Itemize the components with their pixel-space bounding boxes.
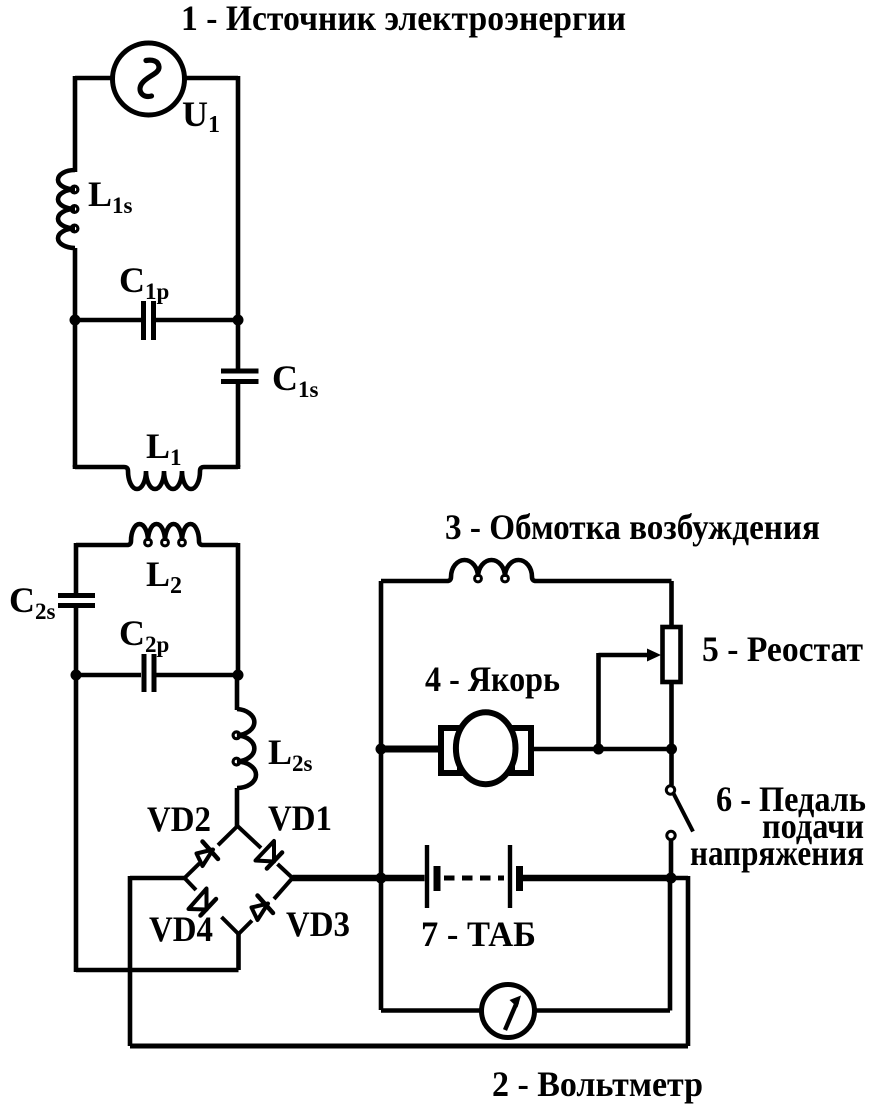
wire: circuit2 right rail top — [236, 543, 241, 675]
svg-text:2 - Вольтметр: 2 - Вольтметр — [492, 1064, 703, 1104]
wire: voltmeter left lead — [381, 1008, 482, 1013]
svg-text:3 - Обмотка возбуждения: 3 - Обмотка возбуждения — [445, 507, 820, 547]
wire: left rail between C1p and bottom — [73, 320, 78, 467]
diode VD3 (bottom-right bridge edge) — [239, 878, 293, 934]
wire: left loop vertical x130 — [128, 876, 133, 1046]
node: junction left C2p — [71, 670, 82, 681]
svg-text:7 - ТАБ: 7 - ТАБ — [421, 914, 536, 954]
node: junction wiper — [593, 744, 604, 755]
diode VD4 (bottom-left bridge edge) — [185, 878, 239, 934]
wire: left rail between L1s and C1p node — [73, 248, 78, 320]
wire: voltmeter right lead — [535, 1008, 671, 1013]
wire: right rail below C1s — [236, 383, 241, 467]
capacitor C2s — [58, 596, 95, 606]
wire: top right from source to right rail — [185, 76, 239, 81]
wire: outer right rail x688 — [686, 876, 691, 1046]
svg-text:1 - Источник электроэнергии: 1 - Источник электроэнергии — [181, 0, 626, 38]
svg-text:4 - Якорь: 4 - Якорь — [425, 659, 560, 699]
wire: circuit2 left rail below C2s — [74, 608, 79, 675]
wire: circuit2 left rail top — [74, 543, 79, 593]
node: junction right C1p — [233, 315, 244, 326]
wire: inner right rail x670 down to voltmeter — [668, 878, 673, 1011]
wire: bottom long wire — [130, 1044, 688, 1049]
wire: motor circuit right rail to rheostat — [669, 581, 674, 627]
wire: rheostat wiper arm — [599, 649, 662, 750]
wire: right rail C2p to L2s — [235, 675, 240, 710]
battery 7 (TAB) — [381, 845, 671, 908]
node: junction armature left — [376, 744, 387, 755]
node: junction battery left — [376, 873, 387, 884]
inductor L1 — [75, 467, 238, 489]
wire: L2s to bridge top vertex — [235, 788, 240, 826]
motor armature 4 — [381, 712, 672, 784]
AC source U1 — [113, 43, 185, 115]
capacitor C2p — [76, 654, 238, 692]
wire: circuit2 left rail lower — [74, 675, 79, 972]
inductor L1s — [58, 170, 78, 248]
diode VD1 (top-right bridge edge) — [238, 826, 293, 878]
wire: bridge left vertex to left loop — [130, 876, 185, 881]
wire: bottom of loop1 left stub — [73, 465, 78, 469]
resistor: rheostat 5 — [663, 627, 681, 682]
node: junction battery right — [666, 873, 677, 884]
capacitor C1s — [221, 371, 259, 382]
node: junction right C2p — [233, 670, 244, 681]
wire: bottom link y970 — [76, 968, 239, 973]
switch: pedal 6 — [666, 786, 693, 878]
svg-text:VD3: VD3 — [286, 904, 350, 944]
wire: right rail to C1s — [236, 320, 241, 369]
wire: bottom of loop1 right stub — [236, 465, 241, 469]
svg-text:VD2: VD2 — [147, 799, 211, 839]
wire: right rail upper segment — [236, 76, 241, 320]
svg-text:5 - Реостат: 5 - Реостат — [702, 629, 863, 669]
voltmeter 2 — [482, 985, 535, 1038]
inductor: excitation winding — [381, 560, 672, 582]
diode VD2 (top-left bridge edge) — [185, 826, 238, 878]
wire: battery node to outer right rail — [671, 876, 688, 881]
wire: bridge output thick to motor rail — [293, 875, 383, 882]
svg-text:VD1: VD1 — [268, 798, 332, 838]
capacitor C1p — [75, 301, 238, 340]
node: junction armature right rail — [666, 744, 677, 755]
svg-text:напряжения: напряжения — [690, 833, 864, 873]
wire: top left from source to left rail — [75, 76, 113, 81]
label: 6 - Педаль подачи напряжения — [690, 779, 866, 873]
inductor L2 — [76, 524, 238, 546]
wire: left rail upper segment — [73, 76, 78, 172]
node: junction left C1p — [70, 315, 81, 326]
wire: right rail rheostat to switch — [669, 682, 674, 785]
wire: motor circuit left rail — [379, 581, 384, 1010]
inductor L2s — [233, 709, 256, 788]
wire: bridge bottom vertex down — [236, 934, 241, 970]
